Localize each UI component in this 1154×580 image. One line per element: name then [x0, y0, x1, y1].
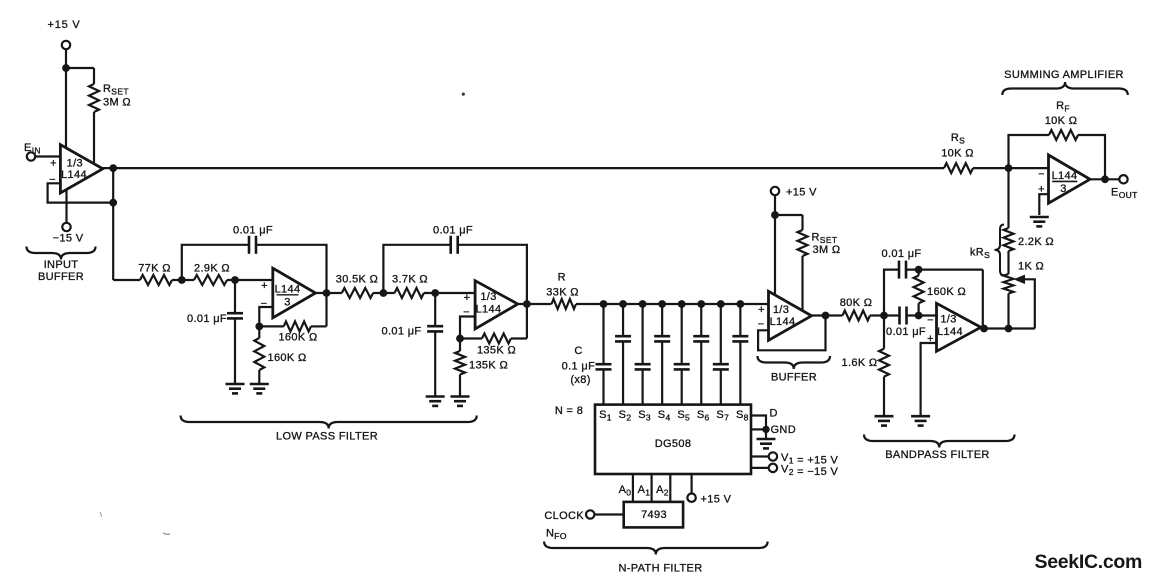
wire RF to output [1078, 135, 1105, 179]
capacitor C S6 0.1uF [693, 335, 709, 338]
ground (U5 + input) [911, 415, 930, 418]
junction U5 output [980, 325, 988, 333]
svg-text:135K Ω: 135K Ω [469, 360, 508, 372]
pin A2 wire [669, 474, 671, 502]
wire capacitor to ground [234, 319, 236, 384]
wire U1 feedback (inverting input) [48, 183, 114, 202]
svg-text:+: + [758, 304, 765, 316]
svg-text:BUFFER: BUFFER [771, 372, 817, 384]
op-amp U1 1/3 L144 (input buffer) [60, 145, 102, 193]
capacitor 0.01uF to ground (stage1) [234, 280, 236, 313]
svg-text:160K Ω: 160K Ω [278, 332, 317, 344]
junction U2 output [323, 289, 331, 297]
svg-text:33K Ω: 33K Ω [546, 287, 579, 299]
svg-text:+15 V: +15 V [701, 494, 732, 506]
wire 160K to output [311, 325, 327, 327]
pin A0 wire [632, 474, 634, 502]
wire pot to bandpass output [1007, 294, 1009, 329]
brace bandpass filter [864, 435, 1015, 448]
wire S6 column [700, 304, 702, 336]
ground (DG508 D) [757, 438, 776, 441]
svg-text:1/3: 1/3 [67, 158, 83, 170]
junction feedback node [109, 199, 117, 207]
capacitor C S7 0.1uF [713, 363, 729, 366]
junction pot bottom [1005, 325, 1013, 333]
wire 2.2K to 1K pot [1007, 251, 1009, 274]
ground (U6 + input) [1030, 216, 1049, 219]
wire +15V down to U4 [774, 195, 776, 295]
wire RS to U6 [973, 167, 1049, 169]
svg-text:1.6K Ω: 1.6K Ω [841, 357, 877, 369]
svg-text:N-PATH FILTER: N-PATH FILTER [619, 563, 703, 575]
junction S5 bus [678, 300, 686, 308]
wire 135K to output [511, 337, 527, 339]
resistor RF 10K [1049, 130, 1078, 140]
svg-text:3: 3 [1060, 183, 1066, 195]
wire S2 column [622, 304, 624, 336]
svg-text:−15 V: −15 V [53, 233, 84, 245]
svg-text:135K Ω: 135K Ω [477, 345, 516, 357]
svg-text:D: D [770, 408, 778, 420]
brace summing amplifier [1002, 82, 1128, 95]
capacitor C S1 0.1uF [596, 363, 612, 366]
resistor 2.9K [194, 275, 227, 285]
resistor 80K [843, 311, 871, 321]
svg-text:GND: GND [771, 424, 797, 436]
wire 3.7K to U3 + input [424, 292, 475, 294]
svg-text:3.7K Ω: 3.7K Ω [392, 274, 428, 286]
capacitor C S3 0.1uF [635, 363, 651, 366]
capacitor 0.01uF (stage2 feedback) [449, 236, 452, 254]
wire U4 output [812, 314, 843, 316]
wire cap to feedback bus [906, 269, 983, 271]
wire U2 inverting input [259, 307, 273, 326]
svg-text:L144: L144 [770, 316, 796, 328]
svg-text:0.1 μF: 0.1 μF [562, 361, 596, 373]
svg-text:2.9K Ω: 2.9K Ω [194, 263, 230, 275]
svg-text:L144: L144 [61, 169, 87, 181]
wire U5 output [980, 327, 982, 328]
svg-text:0.01 μF: 0.01 μF [382, 326, 422, 338]
brace buffer [758, 356, 831, 369]
capacitor 0.01uF (stage1 feedback) [248, 236, 251, 254]
svg-text:L144: L144 [275, 284, 301, 296]
wire S7 column [720, 304, 722, 364]
node -15V supply (input buffer) [65, 189, 67, 223]
junction +15V / RSET (buffer) [771, 211, 779, 219]
pin V1 wire [751, 455, 769, 457]
junction summing node [1005, 164, 1013, 172]
wire summing node down to kRS chain [1007, 168, 1009, 228]
wire to RSET [66, 67, 94, 69]
junction U4 output [822, 312, 830, 320]
wire U6 output to EOUT [1090, 178, 1119, 180]
wire up to feedback capacitor [182, 245, 249, 280]
svg-text:L144: L144 [1052, 170, 1078, 182]
capacitor C S4 0.1uF [654, 335, 670, 338]
svg-text:DG508: DG508 [655, 438, 692, 450]
wire U3 inverting input [460, 317, 475, 339]
node +15V supply (buffer) [771, 187, 779, 195]
counter 7493 [624, 502, 683, 528]
svg-text:SUMMING AMPLIFIER: SUMMING AMPLIFIER [1004, 69, 1124, 81]
svg-text:R: R [558, 272, 566, 284]
svg-text:0.01 μF: 0.01 μF [433, 225, 473, 237]
node EOUT terminal [1119, 175, 1127, 183]
resistor 30.5K [342, 288, 373, 298]
svg-text:7493: 7493 [641, 509, 667, 521]
wire 2.9K to U2 + input [227, 279, 273, 281]
ground (stage2 135K) [451, 395, 470, 398]
svg-text:LOW PASS FILTER: LOW PASS FILTER [276, 431, 378, 443]
capacitor C S2 0.1uF [615, 335, 631, 338]
op-amp U5 1/3 L144 (bandpass) [937, 303, 981, 351]
svg-text:+15 V: +15 V [47, 19, 80, 31]
resistor 3.7K [395, 288, 424, 298]
wire RSET to U4 [801, 256, 803, 311]
wire 33K to commutator bus [576, 303, 769, 305]
junction S7 bus [717, 300, 725, 308]
junction U5 inverting node [915, 312, 923, 320]
svg-text:BANDPASS FILTER: BANDPASS FILTER [885, 449, 989, 461]
svg-text:(x8): (x8) [570, 374, 590, 386]
potentiometer 1K [1004, 274, 1014, 294]
svg-text:0.01 μF: 0.01 μF [233, 225, 273, 237]
svg-text:80K Ω: 80K Ω [840, 297, 873, 309]
brace input buffer [27, 247, 96, 260]
svg-text:SeekIC.com: SeekIC.com [1035, 551, 1143, 573]
svg-text:−: − [758, 319, 765, 331]
junction U1 output [109, 164, 117, 172]
svg-text:L144: L144 [476, 304, 502, 316]
brace low pass filter [181, 416, 477, 429]
resistor 160K (bandpass) [917, 270, 919, 276]
svg-text:10K Ω: 10K Ω [1045, 115, 1078, 127]
svg-text:77K Ω: 77K Ω [138, 263, 171, 275]
capacitor C S8 0.1uF [732, 335, 748, 338]
junction U6 output [1101, 175, 1109, 183]
junction S8 bus [736, 300, 744, 308]
svg-text:2.2K Ω: 2.2K Ω [1018, 236, 1054, 248]
junction 160K / cap [915, 266, 923, 274]
resistor 135K (stage2 feedback) [482, 334, 511, 344]
resistor 160K to ground (stage1) [258, 326, 260, 338]
svg-text:−: − [261, 298, 268, 310]
resistor RSET 3M (buffer) [798, 230, 808, 256]
capacitor 0.01uF (bandpass top) [898, 261, 901, 279]
junction S4 bus [658, 300, 666, 308]
svg-text:30.5K Ω: 30.5K Ω [336, 274, 378, 286]
pin D wire [751, 416, 766, 440]
wire EIN to U1 + input [35, 155, 60, 157]
wire to 160K feedback [259, 325, 283, 327]
svg-text:+: + [50, 158, 57, 170]
svg-text:160K Ω: 160K Ω [927, 286, 966, 298]
wire U4 feedback [758, 316, 825, 351]
wire U2 output [316, 292, 342, 294]
wire feedback down to output [982, 270, 984, 329]
svg-text:−: − [1038, 169, 1045, 181]
wire U5 + input to ground [921, 343, 937, 416]
svg-text:CLOCK: CLOCK [544, 510, 584, 522]
node stray mark 2 [100, 512, 101, 517]
svg-text:1/3: 1/3 [773, 304, 789, 316]
wire U1 output down to low pass filter [112, 168, 114, 280]
pin A1 wire [650, 474, 652, 502]
junction S2 bus [619, 300, 627, 308]
capacitor 0.01uF to ground (stage2) [434, 293, 436, 326]
junction U3 output [523, 300, 531, 308]
capacitor 0.01uF (bandpass series) [898, 307, 901, 325]
junction S6 bus [697, 300, 705, 308]
brace kRS [995, 225, 1005, 276]
resistor 1.6K to ground [883, 316, 885, 349]
op-amp U6 L144/3 (summing) [1049, 155, 1091, 203]
junction U3 feedback node [456, 335, 464, 343]
junction S3 bus [639, 300, 647, 308]
junction bandpass input [880, 312, 888, 320]
wire up to stage2 feedback capacitor [383, 245, 450, 293]
wire to RSET (buffer) [775, 214, 803, 216]
node stray mark 3 [163, 533, 170, 534]
wire U3 output [518, 303, 552, 305]
junction after 30.5K [380, 289, 388, 297]
wire capacitor to U3 output [458, 245, 527, 304]
wire S1 column [602, 304, 604, 364]
svg-text:BUFFER: BUFFER [38, 271, 84, 283]
wire 30.5K to 3.7K [373, 292, 395, 294]
svg-text:+15 V: +15 V [786, 187, 817, 199]
wire RSET to U1 [93, 112, 95, 164]
junction after 2.9K [231, 276, 239, 284]
svg-text:−: − [927, 315, 934, 327]
pin GND wire [751, 428, 766, 430]
svg-text:0.01 μF: 0.01 μF [187, 313, 227, 325]
resistor 2.2K [1004, 228, 1014, 251]
junction after 77K [178, 276, 186, 284]
svg-text:160K Ω: 160K Ω [268, 352, 307, 364]
node +15V terminal (DG508) [687, 494, 695, 502]
wire 77K to 2.9K [172, 279, 194, 281]
wire cap to U5 inverting input [907, 314, 937, 316]
ground (stage2 cap) [426, 395, 445, 398]
brace n-path filter [544, 542, 768, 555]
ground (stage1 cap) [226, 383, 245, 386]
resistor 160K (stage1 feedback) [284, 321, 311, 331]
wire +15V (DG508 enable) [690, 474, 692, 494]
resistor 77K [140, 275, 172, 285]
wire up to 0.01uF feedback cap [884, 270, 899, 316]
wire U1 output to main bus [103, 167, 944, 169]
svg-text:3M Ω: 3M Ω [103, 97, 131, 109]
ground (1.6K) [875, 415, 894, 418]
wire S5 column [681, 304, 683, 364]
svg-text:INPUT: INPUT [44, 259, 79, 271]
resistor R 33K [552, 299, 577, 309]
multiplexer DG508 [595, 405, 751, 474]
wire to 77K [113, 279, 140, 281]
resistor 135K to ground (stage2) [459, 339, 461, 352]
svg-text:3M Ω: 3M Ω [813, 244, 841, 256]
svg-text:1/3: 1/3 [940, 314, 956, 326]
op-amp U3 1/3 L144 (LPF stage2) [475, 281, 518, 329]
svg-text:10K Ω: 10K Ω [941, 148, 974, 160]
capacitor C S5 0.1uF [674, 363, 690, 366]
wire S8 column [739, 304, 741, 336]
svg-text:3: 3 [284, 297, 290, 309]
svg-text:0.01 μF: 0.01 μF [882, 248, 922, 260]
op-amp U4 1/3 L144 (buffer) [769, 291, 812, 340]
wire 80K to bandpass [870, 314, 899, 316]
resistor RSET 3M (input buffer) [89, 84, 99, 112]
svg-text:L144: L144 [937, 326, 963, 338]
junction +15V / RSET [62, 64, 70, 72]
wire to 135K feedback [460, 337, 482, 339]
wire feedback RF path [1009, 135, 1050, 168]
svg-text:1K Ω: 1K Ω [1018, 261, 1044, 273]
junction U2 feedback node [255, 323, 263, 331]
ground (stage1 160K) [250, 383, 269, 386]
pot wiper arrow [1014, 275, 1026, 284]
pin V2 wire [751, 467, 769, 469]
svg-text:C: C [574, 345, 582, 357]
wire S3 column [641, 304, 643, 364]
wire +15V down to op-amp U1 [65, 49, 67, 149]
junction after 3.7K [431, 289, 439, 297]
wire CLOCK to 7493 [594, 513, 623, 515]
svg-text:1/3: 1/3 [480, 291, 496, 303]
junction S1 bus [600, 300, 608, 308]
node stray speck [462, 93, 465, 96]
wire S4 column [661, 304, 663, 336]
svg-text:N = 8: N = 8 [555, 405, 583, 417]
junction GND node [762, 426, 769, 433]
svg-text:+: + [261, 280, 268, 292]
wire capacitor to U2 output [256, 245, 327, 293]
resistor RS 10K [944, 163, 973, 173]
svg-text:+: + [464, 292, 471, 304]
op-amp U2 1/3 L144 (LPF stage1) [273, 268, 316, 318]
wire U6 + input to ground [1039, 194, 1048, 215]
svg-text:0.01 μF: 0.01 μF [886, 326, 926, 338]
